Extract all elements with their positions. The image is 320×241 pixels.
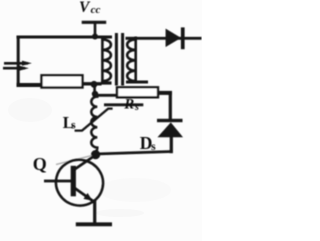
wire: N2 to Rs <box>95 94 118 97</box>
svg-text:s: s <box>71 118 76 132</box>
wire: node N1 to node N2 <box>93 84 96 94</box>
wire: right vertical to Ds cathode <box>169 92 172 120</box>
svg-text:s: s <box>151 139 156 153</box>
node N1 <box>91 81 98 88</box>
wire: emitter to ground <box>93 201 96 227</box>
wire: secondary top to diode D1 <box>135 37 202 40</box>
node N2 <box>92 91 98 97</box>
svg-text:s: s <box>134 102 139 113</box>
label Ds <box>140 133 156 153</box>
diode D1 <box>166 27 185 49</box>
transformer T1 core <box>116 33 122 86</box>
wire: collector node to Ds branch <box>96 152 173 155</box>
label Rs with strike line <box>104 97 143 114</box>
label Ls <box>63 113 76 132</box>
inductor Ls coil <box>91 95 97 153</box>
wire: left vertical branch <box>17 36 20 86</box>
svg-text:V: V <box>79 0 91 16</box>
transformer T1 secondary winding <box>126 37 149 84</box>
capacitor C1 <box>3 61 32 71</box>
node N3 collector junction <box>91 150 100 159</box>
wire: Vcc stub <box>94 22 97 36</box>
resistor Rs <box>117 87 158 97</box>
svg-text:Q: Q <box>33 154 47 174</box>
svg-text:R: R <box>123 97 134 113</box>
wire: Rs to right branch <box>158 91 172 95</box>
arrow through Ls <box>75 109 113 131</box>
power terminal Vcc <box>82 21 107 24</box>
wire: bottom-left run to R1 <box>17 83 43 87</box>
wire: base lead <box>44 180 72 183</box>
resistor R1 <box>42 75 83 87</box>
ground <box>76 222 112 226</box>
transistor Q <box>51 155 107 210</box>
diode Ds <box>157 119 183 137</box>
wire: Ds anode down <box>170 136 173 153</box>
transformer T1 primary winding <box>101 37 112 85</box>
node: Vcc junction <box>92 34 98 40</box>
wire: faint streak at circle top-left <box>56 156 92 165</box>
wire: R1 to node N1 <box>83 82 102 85</box>
label Vcc <box>79 0 100 16</box>
svg-text:cc: cc <box>91 4 101 16</box>
wire: top rail <box>17 36 113 39</box>
